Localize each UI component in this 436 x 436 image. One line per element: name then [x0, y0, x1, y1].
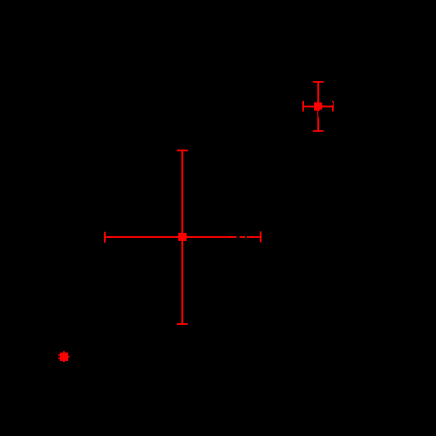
point B bottom cap [313, 130, 324, 132]
point C left cap upper piece [58, 354, 59, 356]
point B line knockout [317, 111, 320, 118]
point A text knockout 2 [245, 236, 247, 239]
point A top cap [177, 150, 188, 152]
point A text knockout 1 [237, 236, 240, 239]
point B cap knockout [332, 102, 333, 105]
point B vertical error line [317, 81, 319, 132]
point B left cap [302, 101, 304, 112]
point C marker [60, 353, 68, 361]
point A left cap [104, 232, 106, 243]
point B marker [314, 102, 322, 110]
point A marker [178, 233, 186, 241]
point C left cap lower piece [58, 357, 59, 359]
point B marker corner knockout [320, 110, 323, 111]
point B top cap [313, 81, 324, 83]
point A right cap [260, 231, 262, 242]
point C vertical stub [63, 351, 65, 362]
point C horizontal stub [60, 356, 69, 358]
point B right cap [332, 101, 334, 112]
point A horizontal error line [105, 236, 262, 238]
point A bottom cap [177, 323, 188, 325]
point A vertical error line [181, 150, 183, 325]
point B horizontal error line [303, 106, 334, 108]
